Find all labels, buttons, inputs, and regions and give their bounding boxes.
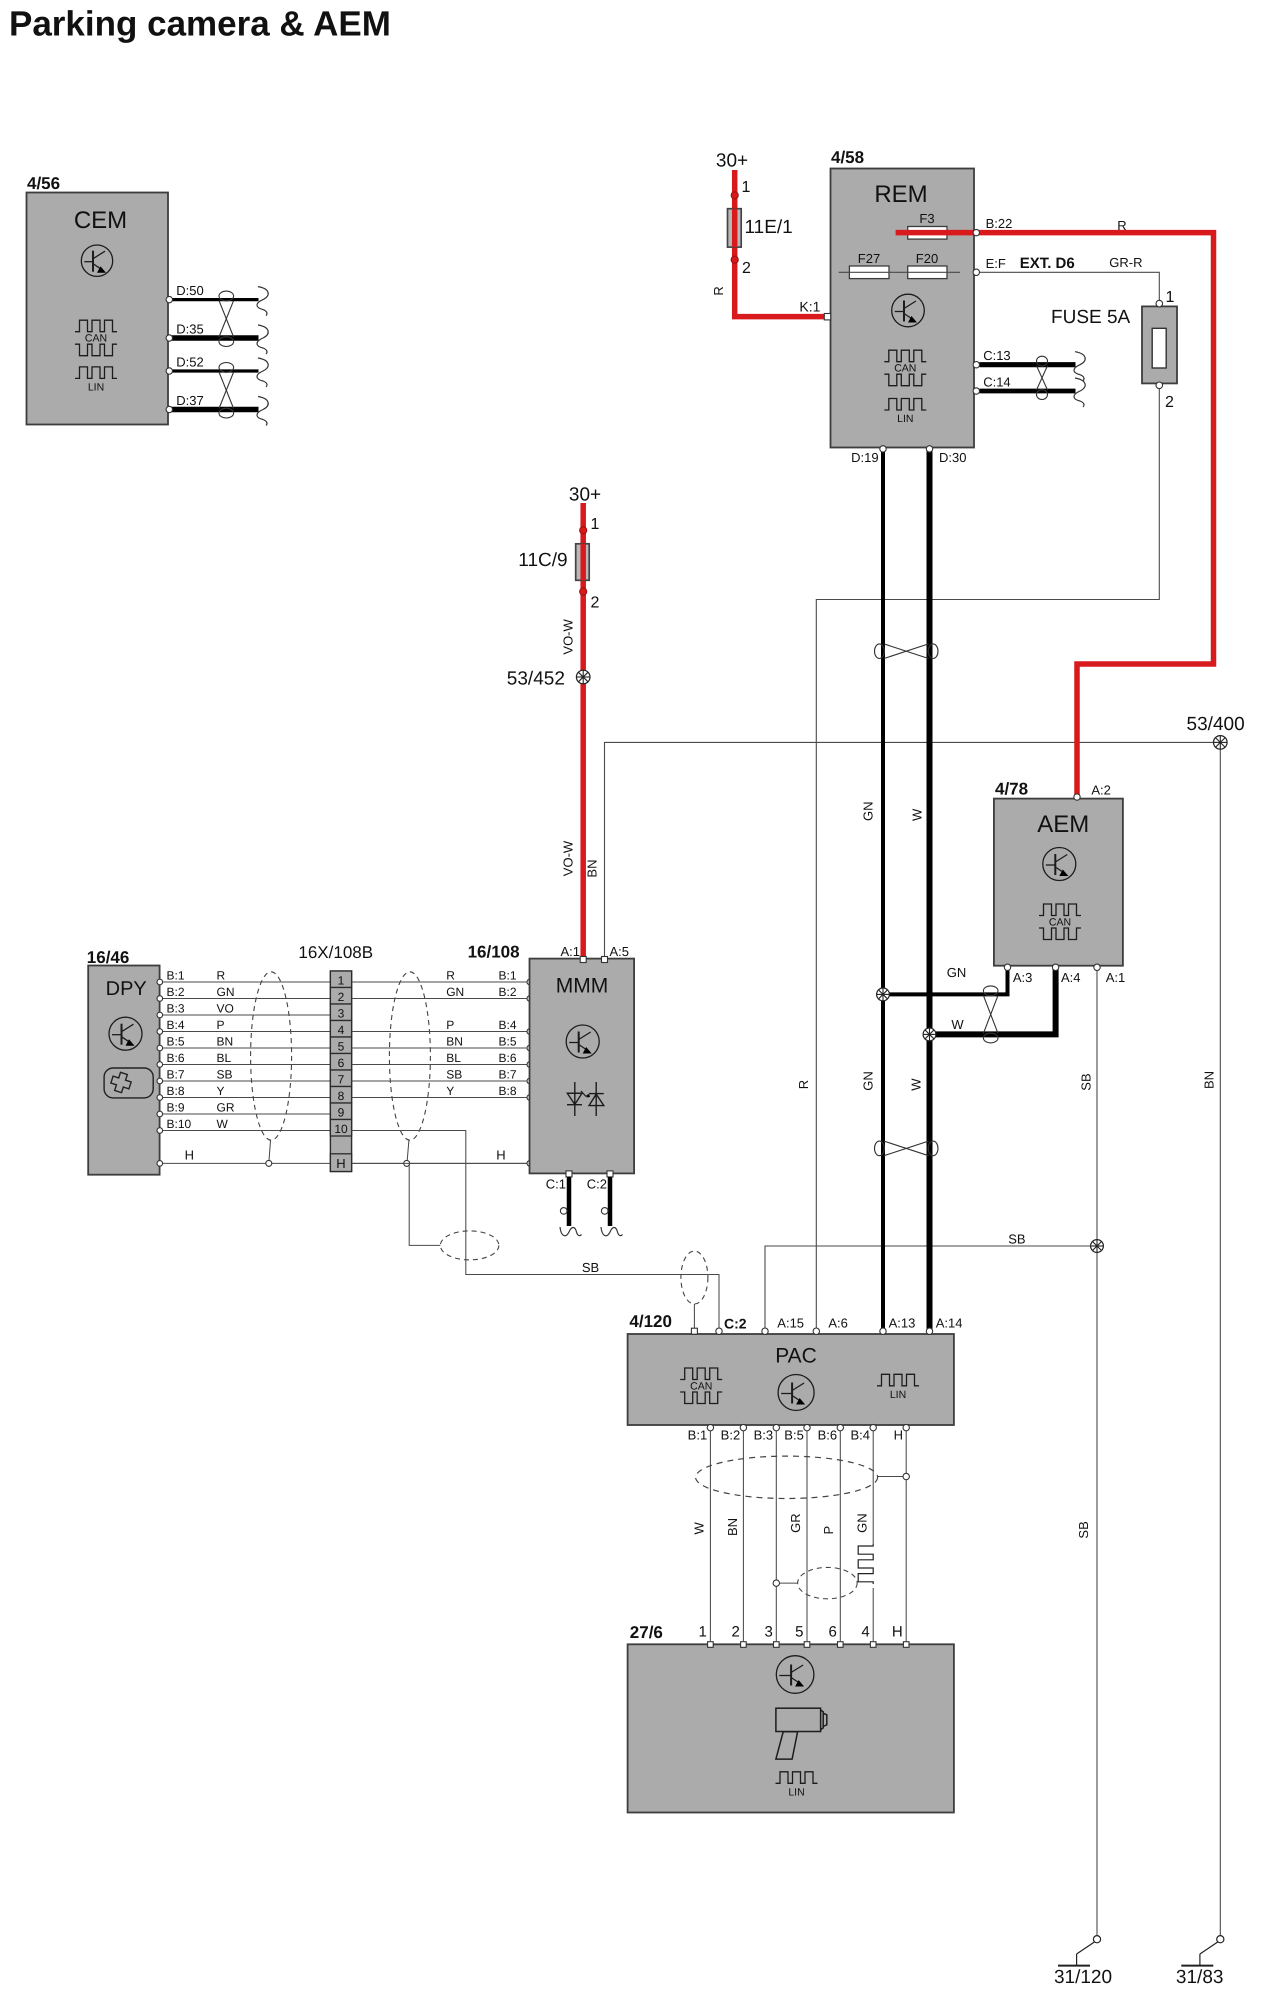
svg-text:BL: BL xyxy=(446,1051,461,1065)
pin A:1 xyxy=(1094,964,1100,970)
pin D:30 xyxy=(926,446,932,452)
shield pin on PAC top xyxy=(691,1328,697,1334)
harness shield ellipse on SB wire xyxy=(440,1231,499,1260)
svg-text:A:15: A:15 xyxy=(777,1315,804,1330)
shield drain to PAC pin xyxy=(693,1304,695,1328)
svg-text:31/120: 31/120 xyxy=(1054,1967,1112,1988)
wire DPY B:3 to connector pin 3 xyxy=(162,1014,331,1016)
pin A:5 of MMM xyxy=(602,957,608,963)
svg-text:BL: BL xyxy=(217,1051,232,1065)
svg-text:CAN: CAN xyxy=(894,363,916,375)
LIN bus icon 27/6 xyxy=(776,1772,818,1784)
net SB branch from PAC A:15 to node on SB wire xyxy=(765,1246,1097,1330)
svg-text:1: 1 xyxy=(338,974,345,988)
svg-text:GN: GN xyxy=(947,965,967,980)
display icon DPY xyxy=(104,1068,153,1098)
harness shield ellipse DPY-connector xyxy=(251,972,292,1140)
wire H shield to camera pin H xyxy=(905,1431,907,1641)
svg-text:SB: SB xyxy=(582,1260,599,1275)
wire DPY B:10 to connector pin 10 xyxy=(162,1130,331,1132)
pin D:52 xyxy=(166,368,172,374)
fuse 11E/1 xyxy=(728,209,742,247)
pin C:14 xyxy=(973,388,979,394)
svg-text:H: H xyxy=(894,1428,903,1443)
shield drain circle on H wire left xyxy=(266,1160,272,1166)
svg-text:B:6: B:6 xyxy=(499,1051,517,1065)
svg-text:SB: SB xyxy=(217,1068,233,1082)
pin B:1 of DPY xyxy=(157,979,163,985)
wire B:1 W to camera pin 1 xyxy=(709,1431,711,1641)
svg-text:11C/9: 11C/9 xyxy=(518,550,567,571)
svg-text:A:13: A:13 xyxy=(889,1315,916,1330)
wire break curl D:52 xyxy=(257,358,268,387)
svg-text:B:6: B:6 xyxy=(167,1051,185,1065)
svg-text:53/400: 53/400 xyxy=(1187,714,1245,735)
svg-text:B:8: B:8 xyxy=(167,1084,185,1098)
svg-text:B:7: B:7 xyxy=(499,1068,517,1082)
wire C:13 CAN stub xyxy=(980,362,1076,367)
svg-text:4/58: 4/58 xyxy=(831,148,864,167)
svg-text:A:1: A:1 xyxy=(1106,970,1126,985)
svg-text:30+: 30+ xyxy=(569,485,601,506)
red wire VO-W from 30+ through fuse 11C/9 to MMM A:1 xyxy=(580,503,586,958)
wire B:2 BN to camera pin 2 xyxy=(742,1431,744,1641)
svg-text:E:F: E:F xyxy=(986,256,1006,271)
svg-text:H: H xyxy=(892,1624,903,1641)
svg-text:B:5: B:5 xyxy=(499,1035,517,1049)
pin E:F xyxy=(973,269,979,275)
svg-text:H: H xyxy=(336,1156,345,1171)
svg-text:B:10: B:10 xyxy=(167,1117,192,1131)
pin B:5 of DPY xyxy=(157,1045,163,1051)
svg-text:10: 10 xyxy=(334,1122,348,1136)
harness shield ellipse at PAC C:2 xyxy=(681,1251,708,1304)
svg-text:H: H xyxy=(496,1148,505,1163)
transistor icon PAC xyxy=(778,1375,814,1411)
wire D:50 to twisted pair xyxy=(169,298,259,301)
wire Y connector to MMM B:8 xyxy=(352,1097,530,1099)
wire break curl D:50 xyxy=(257,287,268,316)
wire H shield DPY to MMM xyxy=(162,1162,530,1164)
pin B:7 of MMM xyxy=(527,1078,533,1084)
pin D:19 xyxy=(880,446,886,452)
transistor icon AEM xyxy=(1043,848,1076,881)
twisted pair D:52/D:37 xyxy=(219,363,234,373)
pin B:10 of DPY xyxy=(157,1128,163,1134)
pin A:13 of PAC xyxy=(880,1328,886,1334)
twisted pair GN/W to AEM xyxy=(983,986,998,996)
svg-text:GR: GR xyxy=(788,1513,803,1533)
svg-text:D:52: D:52 xyxy=(176,355,203,370)
svg-text:EXT. D6: EXT. D6 xyxy=(1020,255,1075,272)
svg-text:F27: F27 xyxy=(858,251,880,266)
pin B:1 of PAC bottom xyxy=(707,1424,713,1430)
svg-text:R: R xyxy=(446,969,455,983)
pin H of DPY xyxy=(157,1161,163,1167)
svg-text:GN: GN xyxy=(860,1071,875,1091)
svg-text:A:14: A:14 xyxy=(936,1315,963,1330)
wire B:5 GR to camera pin 5 xyxy=(806,1431,808,1641)
svg-text:4: 4 xyxy=(338,1023,345,1037)
svg-text:P: P xyxy=(446,1018,454,1032)
junction node on W wire xyxy=(923,1028,936,1041)
svg-text:B:4: B:4 xyxy=(499,1018,517,1032)
fuse 11C/9 xyxy=(576,544,590,581)
wire BN connector to MMM B:5 xyxy=(352,1047,530,1049)
svg-text:GN: GN xyxy=(855,1513,870,1533)
svg-text:2: 2 xyxy=(1165,394,1174,411)
svg-text:R: R xyxy=(711,286,726,295)
svg-text:6: 6 xyxy=(338,1056,345,1070)
svg-text:53/452: 53/452 xyxy=(507,668,565,689)
transistor icon MMM xyxy=(566,1025,599,1058)
wire B:6 P to camera pin 6 xyxy=(839,1431,841,1641)
svg-text:BN: BN xyxy=(1202,1071,1217,1089)
svg-text:W: W xyxy=(692,1522,707,1535)
svg-text:A:5: A:5 xyxy=(610,944,630,959)
svg-text:SB: SB xyxy=(1076,1521,1091,1538)
transistor icon CEM xyxy=(81,245,112,276)
pin B:2 of MMM xyxy=(527,996,533,1002)
net R wire from fuse 5A pin 2 to PAC A:6 xyxy=(816,389,1159,1330)
svg-text:W: W xyxy=(910,808,925,821)
pin A:3 xyxy=(1004,964,1010,970)
svg-text:B:5: B:5 xyxy=(784,1428,804,1443)
CAN bus icon AEM xyxy=(1039,904,1081,916)
pin 2 of 11E/1 xyxy=(731,256,738,263)
wire DPY B:9 to connector pin 9 xyxy=(162,1113,331,1115)
wire R connector to MMM B:1 xyxy=(352,981,530,983)
svg-text:BN: BN xyxy=(446,1035,463,1049)
wire break curl D:37 xyxy=(257,397,268,426)
net EXT.D6 GR-R wire from REM E:F to fuse 5A pin 1 xyxy=(839,272,1160,300)
small harness ellipse lower xyxy=(798,1567,858,1598)
svg-text:C:14: C:14 xyxy=(983,374,1010,389)
CAN bus icon PAC xyxy=(680,1368,722,1380)
svg-text:B:3: B:3 xyxy=(754,1428,774,1443)
wire D:52 xyxy=(169,369,259,372)
svg-text:D:37: D:37 xyxy=(176,393,203,408)
shield drain circle on H wire xyxy=(903,1473,909,1479)
svg-text:31/83: 31/83 xyxy=(1176,1967,1224,1988)
wire GN connector to MMM B:2 xyxy=(352,998,530,1000)
svg-text:Y: Y xyxy=(217,1084,225,1098)
svg-text:CEM: CEM xyxy=(74,207,127,234)
pin 4 of camera 27/6 xyxy=(870,1642,876,1648)
red wire R from REM B:22 via F3 to AEM A:2 xyxy=(896,233,1214,798)
svg-text:B:2: B:2 xyxy=(167,985,185,999)
pin A:4 xyxy=(1052,964,1058,970)
svg-text:GN: GN xyxy=(446,985,464,999)
wire B:3 to camera pin 3 xyxy=(775,1431,777,1641)
transistor icon REM xyxy=(892,294,925,327)
shield link to H wire xyxy=(878,1476,903,1478)
svg-text:16/108: 16/108 xyxy=(468,942,520,961)
LIN bus icon CEM xyxy=(75,367,117,379)
wire DPY B:1 to connector pin 1 xyxy=(162,981,331,983)
wire stub C:2 xyxy=(608,1177,613,1226)
pin C:13 xyxy=(973,362,979,368)
svg-text:VO: VO xyxy=(217,1002,234,1016)
twisted pair C:13/C:14 xyxy=(1037,356,1048,366)
pin A:14 of PAC xyxy=(926,1328,932,1334)
dual diode icon MMM xyxy=(567,1082,604,1116)
pin D:50 xyxy=(166,296,172,302)
svg-text:11E/1: 11E/1 xyxy=(745,217,793,238)
net BN wire from MMM A:5 to node 53/400 down to ground 31/83 xyxy=(605,742,1221,1939)
svg-text:GR-R: GR-R xyxy=(1109,255,1142,270)
wire DPY B:8 to connector pin 8 xyxy=(162,1097,331,1099)
svg-text:B:2: B:2 xyxy=(499,985,517,999)
svg-text:B:3: B:3 xyxy=(167,1002,185,1016)
svg-text:4/120: 4/120 xyxy=(629,1312,672,1331)
svg-text:B:8: B:8 xyxy=(499,1084,517,1098)
wire B:4 GN LIN to camera pin 4 xyxy=(872,1431,874,1544)
pin K:1 on REM xyxy=(824,314,830,320)
svg-text:2: 2 xyxy=(742,260,751,277)
wire from connector pin 10 down to SB line to PAC C:2 xyxy=(352,1131,719,1329)
svg-text:C:1: C:1 xyxy=(546,1177,566,1192)
svg-text:PAC: PAC xyxy=(775,1345,817,1368)
wire W from REM D:30 to PAC A:14 xyxy=(927,451,933,1332)
pin B:4 of PAC bottom xyxy=(870,1424,876,1430)
LIN bus icon PAC xyxy=(877,1374,919,1386)
pin A:2 xyxy=(1074,794,1080,800)
svg-text:1: 1 xyxy=(591,516,600,533)
svg-text:BN: BN xyxy=(585,860,600,878)
svg-text:1: 1 xyxy=(699,1624,707,1641)
svg-text:B:4: B:4 xyxy=(167,1018,185,1032)
svg-text:CAN: CAN xyxy=(85,333,107,345)
line through F27 F20 xyxy=(839,271,960,273)
wire DPY B:6 to connector pin 6 xyxy=(162,1064,331,1066)
svg-text:GN: GN xyxy=(860,802,875,822)
svg-text:4/78: 4/78 xyxy=(995,779,1028,798)
pin B:8 of DPY xyxy=(157,1095,163,1101)
svg-text:W: W xyxy=(217,1117,229,1131)
LIN meander on B:4 wire xyxy=(858,1544,873,1584)
svg-text:B:9: B:9 xyxy=(167,1101,185,1115)
svg-text:B:2: B:2 xyxy=(721,1428,741,1443)
twisted pair GN/W upper xyxy=(875,644,885,659)
wire DPY B:4 to connector pin 4 xyxy=(162,1031,331,1033)
wire DPY B:2 to connector pin 2 xyxy=(162,998,331,1000)
svg-text:SB: SB xyxy=(446,1068,462,1082)
pin B:5 of PAC bottom xyxy=(804,1424,810,1430)
harness shield ellipse connector-MMM xyxy=(389,972,430,1140)
pin 3 of camera 27/6 xyxy=(774,1642,780,1648)
svg-text:D:30: D:30 xyxy=(939,450,966,465)
svg-text:BN: BN xyxy=(217,1035,234,1049)
pin A:15 of PAC xyxy=(762,1328,768,1334)
pin H of camera 27/6 xyxy=(903,1642,909,1648)
svg-text:AEM: AEM xyxy=(1037,811,1089,838)
junction node on GN wire xyxy=(877,988,890,1001)
svg-text:D:19: D:19 xyxy=(851,450,878,465)
svg-text:GN: GN xyxy=(217,985,235,999)
svg-text:LIN: LIN xyxy=(788,1786,804,1798)
pin C:2 of MMM xyxy=(607,1171,613,1177)
svg-text:K:1: K:1 xyxy=(799,299,820,315)
wire BL connector to MMM B:6 xyxy=(352,1064,530,1066)
pin B:6 of PAC bottom xyxy=(837,1424,843,1430)
svg-text:LIN: LIN xyxy=(88,381,104,393)
svg-text:C:2: C:2 xyxy=(587,1177,607,1192)
svg-text:R: R xyxy=(1117,218,1126,233)
wire C:14 CAN stub xyxy=(980,389,1076,394)
pin B:2 of DPY xyxy=(157,996,163,1002)
pin H of PAC bottom xyxy=(903,1424,909,1430)
svg-text:FUSE 5A: FUSE 5A xyxy=(1051,307,1131,328)
transistor icon DPY xyxy=(109,1017,142,1050)
svg-text:7: 7 xyxy=(338,1073,345,1087)
svg-text:9: 9 xyxy=(338,1106,345,1120)
pin D:37 xyxy=(166,406,172,412)
pin B:2 of PAC bottom xyxy=(740,1424,746,1430)
pin D:35 xyxy=(166,335,172,341)
wire H connector to MMM xyxy=(352,1162,530,1164)
svg-text:B:4: B:4 xyxy=(850,1428,870,1443)
svg-text:A:6: A:6 xyxy=(828,1315,848,1330)
svg-text:C:13: C:13 xyxy=(983,348,1010,363)
svg-text:30+: 30+ xyxy=(716,150,748,171)
svg-text:1: 1 xyxy=(1166,289,1175,306)
pin 1 of 11C/9 xyxy=(580,527,587,534)
shield line from H to harness ellipse xyxy=(409,1163,440,1245)
wire D:37 LIN xyxy=(169,407,259,413)
svg-text:MMM: MMM xyxy=(556,974,608,997)
svg-text:8: 8 xyxy=(338,1089,345,1103)
pin C:1 of MMM xyxy=(566,1171,572,1177)
svg-text:6: 6 xyxy=(828,1624,836,1641)
pin B:4 of MMM xyxy=(527,1029,533,1035)
pin 6 of camera 27/6 xyxy=(838,1642,844,1648)
svg-text:B:1: B:1 xyxy=(688,1428,708,1443)
svg-text:A:3: A:3 xyxy=(1013,970,1033,985)
svg-text:C:2: C:2 xyxy=(724,1315,747,1331)
svg-text:4: 4 xyxy=(861,1624,869,1641)
svg-text:1: 1 xyxy=(742,179,751,196)
svg-text:5: 5 xyxy=(338,1040,345,1054)
svg-text:W: W xyxy=(909,1078,924,1091)
twisted pair D:50/D:35 xyxy=(219,291,234,301)
ground 31/83 xyxy=(1217,1936,1224,1943)
pin B:9 of DPY xyxy=(157,1111,163,1117)
svg-text:VO-W: VO-W xyxy=(560,840,575,876)
pin 2 of 11C/9 xyxy=(580,588,587,595)
svg-text:GR: GR xyxy=(217,1101,235,1115)
shield drain circle on H wire right xyxy=(404,1160,410,1166)
pin B:4 of DPY xyxy=(157,1029,163,1035)
svg-text:B:1: B:1 xyxy=(167,969,185,983)
svg-text:P: P xyxy=(821,1526,836,1535)
pin B:6 of DPY xyxy=(157,1062,163,1068)
wire DPY B:7 to connector pin 7 xyxy=(162,1080,331,1082)
pin 2 of camera 27/6 xyxy=(741,1642,747,1648)
net SB wire from AEM A:1 down to ground 31/120 xyxy=(1096,970,1098,1939)
svg-text:SB: SB xyxy=(1008,1232,1025,1247)
svg-text:A:2: A:2 xyxy=(1091,782,1111,797)
svg-text:F20: F20 xyxy=(916,251,938,266)
svg-text:B:1: B:1 xyxy=(499,969,517,983)
svg-text:A:4: A:4 xyxy=(1061,970,1081,985)
wire W from junction to AEM A:4 xyxy=(930,968,1056,1034)
wire SB connector to MMM B:7 xyxy=(352,1080,530,1082)
svg-text:16X/108B: 16X/108B xyxy=(298,943,373,962)
wire break curl D:35 xyxy=(257,325,268,354)
harness big shield ellipse xyxy=(696,1456,878,1498)
pin H of MMM xyxy=(527,1161,533,1167)
wire GN from junction to AEM A:3 xyxy=(883,968,1008,994)
pin 5 of camera 27/6 xyxy=(804,1642,810,1648)
CAN bus icon REM xyxy=(884,350,926,362)
svg-text:SB: SB xyxy=(1079,1073,1094,1090)
svg-text:VO-W: VO-W xyxy=(560,618,575,654)
wire D:35 CAN xyxy=(169,335,259,341)
pin B:22 xyxy=(973,229,979,235)
shield drain circle on B:3 wire xyxy=(773,1580,779,1586)
pin B:8 of MMM xyxy=(527,1095,533,1101)
pin B:1 of MMM xyxy=(527,979,533,985)
svg-text:3: 3 xyxy=(338,1007,345,1021)
wire break curl C:13 xyxy=(1074,352,1085,381)
ground 31/120 xyxy=(1093,1936,1100,1943)
pin A:1 of MMM xyxy=(580,957,586,963)
wire stub C:1 xyxy=(567,1177,572,1226)
svg-text:BN: BN xyxy=(725,1518,740,1536)
svg-text:LIN: LIN xyxy=(890,1389,906,1401)
red wire R from 30+ through fuse 11E/1 to REM K:1 xyxy=(735,170,827,317)
CAN bus icon CEM xyxy=(75,320,117,332)
svg-text:F3: F3 xyxy=(919,211,934,226)
pin C:2 of PAC xyxy=(716,1328,722,1334)
svg-text:B:22: B:22 xyxy=(986,216,1013,231)
pin 1 of camera 27/6 xyxy=(708,1642,714,1648)
pin A:6 of PAC xyxy=(813,1328,819,1334)
svg-text:27/6: 27/6 xyxy=(630,1623,663,1642)
svg-text:B:7: B:7 xyxy=(167,1068,185,1082)
twisted pair GN/W lower xyxy=(875,1141,885,1156)
pin 1 of FUSE 5A xyxy=(1156,300,1163,307)
svg-text:Y: Y xyxy=(446,1084,454,1098)
svg-text:2: 2 xyxy=(732,1624,740,1641)
pin B:7 of DPY xyxy=(157,1078,163,1084)
pin B:6 of MMM xyxy=(527,1062,533,1068)
wire DPY B:5 to connector pin 5 xyxy=(162,1047,331,1049)
pin B:3 of DPY xyxy=(157,1012,163,1018)
svg-text:3: 3 xyxy=(764,1624,772,1641)
pin B:5 of MMM xyxy=(527,1045,533,1051)
svg-text:H: H xyxy=(185,1148,194,1163)
pin 2 of FUSE 5A xyxy=(1156,382,1163,389)
svg-text:D:35: D:35 xyxy=(176,322,203,337)
transistor icon 27/6 xyxy=(776,1656,814,1694)
svg-text:2: 2 xyxy=(591,594,600,611)
wire P connector to MMM B:4 xyxy=(352,1031,530,1033)
svg-text:Parking camera & AEM: Parking camera & AEM xyxy=(9,5,391,44)
svg-text:CAN: CAN xyxy=(690,1381,712,1393)
svg-text:LIN: LIN xyxy=(897,413,913,425)
svg-text:W: W xyxy=(951,1017,964,1032)
camera icon xyxy=(776,1708,827,1759)
svg-text:REM: REM xyxy=(874,181,927,208)
pin B:3 of PAC bottom xyxy=(773,1424,779,1430)
svg-text:A:1: A:1 xyxy=(560,944,580,959)
wire GN from REM D:19 to PAC A:13 xyxy=(881,451,885,1332)
svg-text:4/56: 4/56 xyxy=(27,174,60,193)
LIN bus icon REM xyxy=(884,399,926,411)
svg-text:B:6: B:6 xyxy=(818,1428,838,1443)
